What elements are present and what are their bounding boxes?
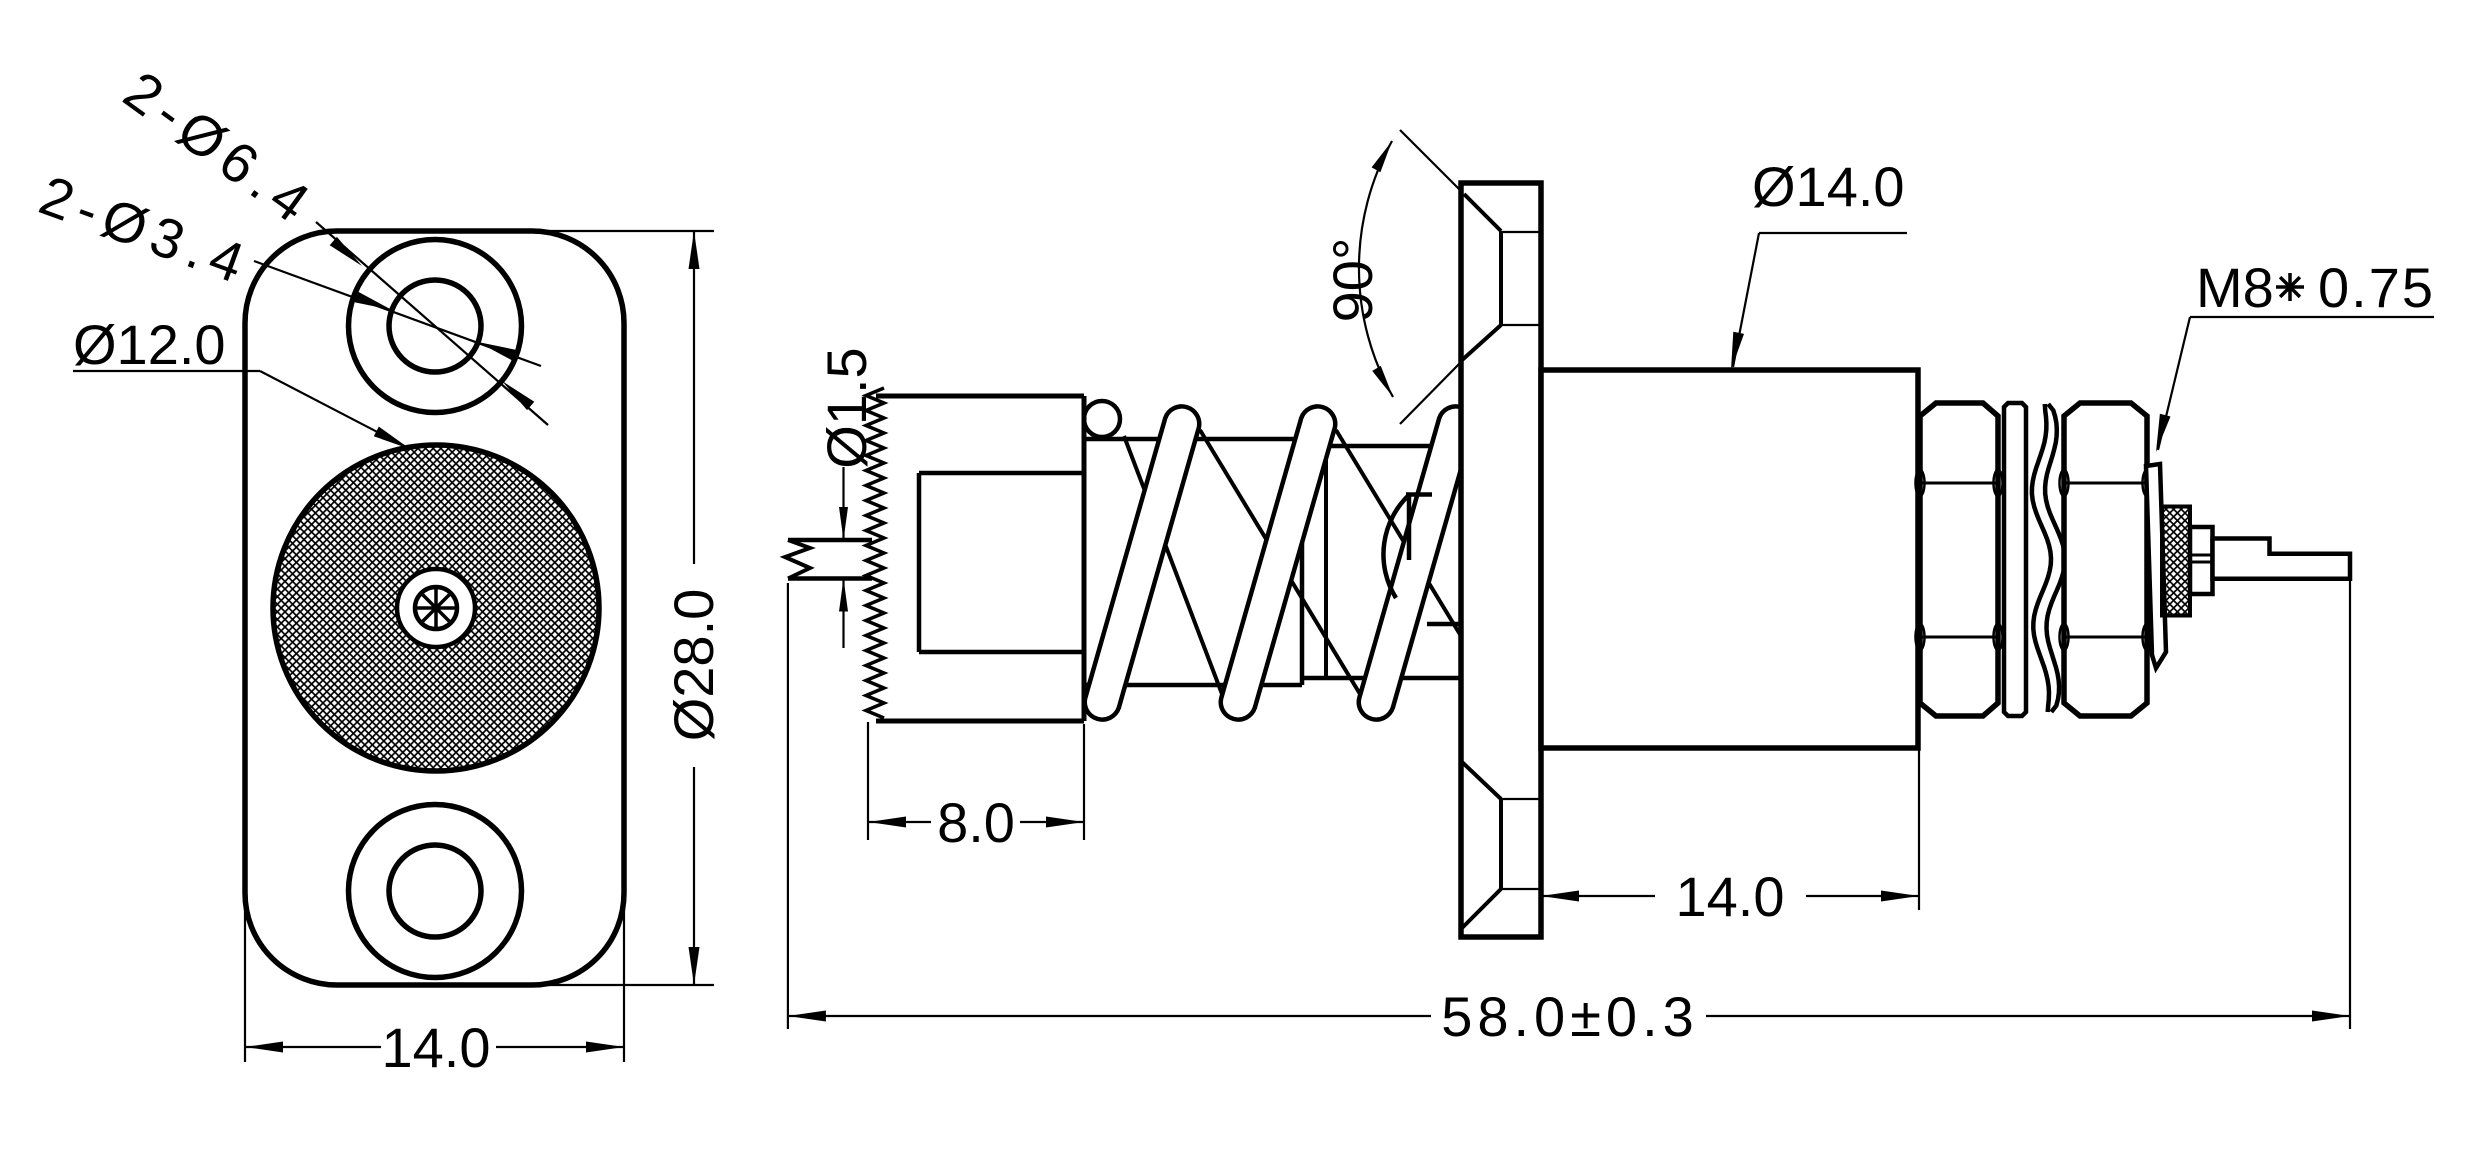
spring front coil 2 <box>1221 406 1335 719</box>
svg-text:90°: 90° <box>1321 238 1384 323</box>
inner stem tube behind spring <box>1084 437 1302 442</box>
svg-text:58.0±0.3: 58.0±0.3 <box>1441 985 1699 1048</box>
center pin circle with 8 spokes <box>415 587 457 629</box>
svg-text:14.0: 14.0 <box>382 1016 491 1079</box>
tilted lock washer <box>2146 464 2166 668</box>
bottom mounting hole inner <box>389 845 481 937</box>
svg-text:Ø14.0: Ø14.0 <box>1752 155 1905 218</box>
flange top chamfer <box>1464 194 1501 231</box>
dimension 8.0 (cap length) <box>867 722 869 840</box>
tip step <box>2190 527 2213 594</box>
leader line for 2-Ø3.4 <box>254 261 541 366</box>
terminal pin (right end, stepped) <box>2213 539 2351 579</box>
spring front coil 3 <box>1359 406 1473 719</box>
insulator circle <box>397 569 475 647</box>
flange bottom chamfer <box>1462 762 1501 799</box>
top mounting hole 2-Ø3.4 inner <box>389 280 481 372</box>
90° chamfer construction lines <box>1400 130 1461 191</box>
knurled tip cylinder (M8 end) <box>2162 507 2190 616</box>
90° dimension arc <box>1359 141 1393 397</box>
knurled face circle Ø12.0 (crosshatched) <box>273 445 599 771</box>
flange plate outline (rounded rectangle 14.0 x 28.0) <box>245 231 624 985</box>
dimension 58.0±0.3 (overall length) <box>787 583 789 1029</box>
flat washer <box>2004 403 2026 716</box>
spring front coil 1 <box>1085 406 1199 719</box>
dimension 14.0 (body length) <box>1918 749 1920 910</box>
spring wire end cross-section <box>1084 401 1120 437</box>
inner contact dome (drawn over coil 3) <box>1383 494 1410 598</box>
bottom mounting hole outer <box>349 805 522 978</box>
svg-text:M8: M8 <box>2196 256 2274 319</box>
svg-text:Ø12.0: Ø12.0 <box>73 313 226 376</box>
dimension Ø28.0 (right side, vertical) <box>520 230 714 232</box>
spring back coils (hidden side) <box>1124 436 1222 694</box>
svg-text:8.0: 8.0 <box>937 791 1015 854</box>
main body cylinder Ø14.0 <box>1541 370 1918 748</box>
leader line for 2-Ø6.4 <box>316 222 548 425</box>
center contact pin (left, with break symbol) <box>788 538 872 543</box>
cap socket bore <box>917 473 922 652</box>
mounting flange (side view) <box>1461 183 1541 937</box>
svg-text:Ø28.0: Ø28.0 <box>662 589 725 742</box>
dimension Ø1.5 for pin <box>842 467 844 540</box>
svg-text:0.75: 0.75 <box>2318 256 2435 319</box>
wave washer <box>2032 404 2051 712</box>
top mounting hole 2-Ø6.4 outer <box>349 240 522 413</box>
break zigzag <box>785 540 810 579</box>
svg-text:14.0: 14.0 <box>1676 865 1785 928</box>
knurled coupling cap (left end) <box>878 396 1084 721</box>
dimension 14.0 (bottom of left view) <box>244 900 246 1062</box>
hex nut 1 <box>1920 403 1998 716</box>
hex nut 2 <box>2064 403 2147 716</box>
